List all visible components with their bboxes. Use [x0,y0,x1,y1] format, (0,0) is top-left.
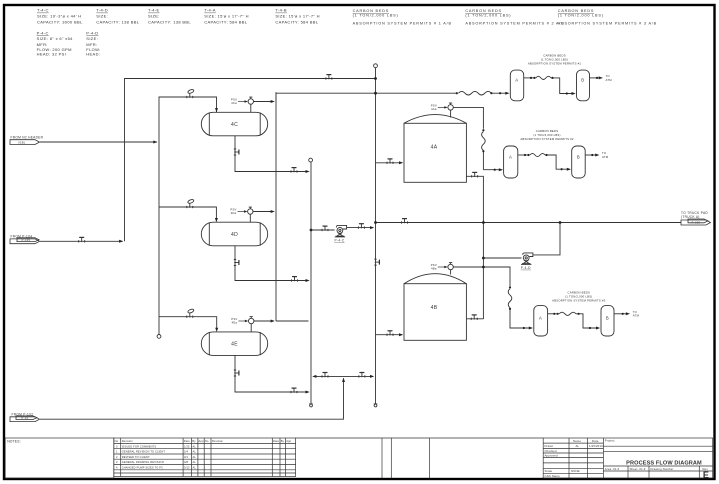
svg-text:CAD Name: CAD Name [545,474,561,478]
coupling pair1 jumper w [530,77,532,79]
coupling pair3 B feed dot [589,327,591,329]
pipe pair2 A inlet [483,169,501,171]
coupling pair3 atm dot [622,313,624,315]
PSV 4A [448,103,453,110]
svg-text:Revision: Revision [122,439,134,443]
svg-text:SIZE: 15'ø x 17'-7" H: SIZE: 15'ø x 17'-7" H [275,13,320,18]
coupling pair1 atm dot [596,77,598,79]
pipe from N2 header flag [40,141,157,143]
svg-text:AL: AL [193,466,197,470]
pipe N2 riser vertical x124 [125,79,376,242]
svg-text:4Ca: 4Ca [231,101,237,105]
svg-text:AL: AL [193,455,197,459]
svg-text:T-4-B: T-4-B [275,8,287,13]
arrow drain 4E into header [306,391,310,394]
svg-text:(1 TON/2,000 LBS): (1 TON/2,000 LBS) [465,14,511,18]
svg-text:4E: 4E [231,341,238,347]
svg-text:HEAD:: HEAD: [86,52,100,57]
svg-text:Scale: Scale [545,469,553,473]
valve 4B outlet [471,315,477,320]
svg-text:0: 0 [116,444,118,448]
coupling pair2 drop lower [482,150,484,152]
coupling pair2 jumper e [545,154,547,156]
svg-text:Name: Name [573,439,581,443]
arrow into 4C top [215,108,218,112]
svg-text:ABSORPTION SYSTEM PERMITS # 2: ABSORPTION SYSTEM PERMITS # 2 A/B [465,21,564,25]
pipe truck pad line [376,222,682,224]
arrow N2 header into manifold [153,141,157,144]
table T-4-A [204,8,249,25]
svg-text:4B: 4B [431,305,438,311]
svg-text:CAPACITY: 138 BBL: CAPACITY: 138 BBL [96,19,139,24]
svg-text:P-4-C: P-4-C [37,30,49,35]
coupling pair1 feed dot [499,92,501,94]
arrow crosstie east end [370,375,374,378]
flag from P-102 [10,416,40,422]
carbon bed pair1 A [510,70,523,101]
svg-text:E: E [703,470,709,480]
svg-text:4D: 4D [231,232,238,238]
svg-text:1: 1 [116,450,118,454]
svg-text:3: 3 [116,460,118,464]
valve trunk isolation [374,259,379,265]
pipe pair3 A-B jumper [548,313,558,315]
coupling pair3 jumper w [553,313,555,315]
svg-text:NOTES:: NOTES: [7,440,21,444]
revision row 3 [116,460,196,464]
svg-text:CAPACITY: 584 BBL: CAPACITY: 584 BBL [204,19,247,24]
junction pump suction at x311 [310,229,313,232]
svg-text:CAPACITY: 138 BBL: CAPACITY: 138 BBL [148,19,191,24]
pipe pair1 A-B jumper [524,77,535,79]
svg-text:P-4-D: P-4-D [521,266,531,270]
svg-text:4A: 4A [431,145,438,151]
svg-text:ATM: ATM [602,155,609,159]
svg-text:Drawn: Drawn [545,444,554,448]
svg-text:PROCESS FLOW DIAGRAM: PROCESS FLOW DIAGRAM [626,461,702,467]
svg-text:1/25: 1/25 [184,444,190,448]
control valve 4C inlet [187,89,195,98]
revision row 0 [116,444,196,448]
arrow P-104 into riser [119,240,123,243]
vent cap drain header top [309,158,313,162]
revision table header [115,439,292,443]
arrow pump discharge into trunk [370,226,374,229]
drain cap trunk bottom [374,404,378,407]
svg-text:4C: 4C [231,122,238,128]
svg-text:3/8: 3/8 [184,460,188,464]
coupling pair2 jumper w2 [527,154,529,156]
pipe pump P-4-D discharge riser [533,223,560,255]
vessel 4C [201,112,267,136]
title block labels [545,439,709,479]
caption carbon beds pair1 [528,54,582,66]
svg-text:App: App [286,439,291,443]
valve pump P-4-C suction [322,226,328,231]
arrow P-102 into crosstie [342,378,345,382]
svg-text:Sheet .01 #: Sheet .01 # [630,467,646,471]
svg-text:Area .01 #: Area .01 # [605,467,620,471]
coupling pair1 jumper e [551,77,553,79]
pipe 4C bottom outlet [235,136,309,172]
tank 4A [404,115,466,183]
junction P-4-D discharge at truck line [559,221,562,224]
carbon bed pair1 B [577,70,590,101]
coupling carbon feed west [456,92,458,94]
svg-text:T-4-E: T-4-E [148,8,160,13]
pipe 4E bottom outlet [235,355,309,392]
arrow into 4D top [215,218,218,222]
svg-text:T-4-A: T-4-A [204,8,216,13]
arrow pair1 B inlet [572,92,576,95]
svg-text:CAPACITY: 584 BBL: CAPACITY: 584 BBL [275,19,318,24]
svg-text:CHANGED PUMP SIZES TO P3: CHANGED PUMP SIZES TO P3 [122,466,163,470]
vent cap inlet manifold bottom [157,335,161,339]
svg-text:ABSORPTION SYSTEM PERMITS #1: ABSORPTION SYSTEM PERMITS #1 [528,62,582,66]
valve 4C drain riser [234,149,239,155]
svg-text:Date: Date [273,439,279,443]
svg-text:2: 2 [116,455,118,459]
vessel 4E [201,332,267,356]
pipe 4A inlet [376,162,403,164]
pipe PSV 4C discharge [254,101,274,103]
pipe pump P-4-C suction [311,229,335,231]
valve pump P-4-C discharge [358,224,364,229]
table T-4-B [275,8,320,25]
svg-text:ABSORPTION SYSTEM PERMITS #3: ABSORPTION SYSTEM PERMITS #3 [552,299,606,303]
svg-text:(1 TON/2,000 LBS): (1 TON/2,000 LBS) [353,14,399,18]
coupling pair3 jumper w2 [557,313,559,315]
flag from N2 header [10,140,40,145]
svg-text:4: 4 [116,466,118,470]
valve on N2 crossover [326,75,332,80]
svg-text:4Da: 4Da [231,211,237,215]
pipe 4B outlet stub [466,318,483,320]
svg-text:P-4-C: P-4-C [334,238,344,242]
svg-text:App: App [199,439,204,443]
flag from P-104 [10,238,40,244]
svg-text:AL: AL [193,450,197,454]
carbon bed pair3 B [601,306,614,336]
pipe pair2 B outlet [585,154,597,156]
coupling pair3 drop lower [509,308,511,310]
pipe drain header x311 [310,162,312,404]
valve 4B inlet [387,331,393,336]
BOTTOM STRIP [5,438,713,478]
svg-text:P-4-D: P-4-D [86,30,98,35]
svg-text:A: A [539,315,542,320]
svg-text:05BL: 05BL [18,140,26,144]
pipe 4B inlet [376,334,403,336]
svg-text:NONE: NONE [571,469,580,473]
PSV 4Ca [248,97,253,104]
pipe PSV 4E discharge [254,320,274,322]
pump P-4-C [335,225,347,237]
svg-text:ATM: ATM [633,314,640,318]
flag to truck pad [681,219,711,225]
pipe manifold bottom to x311 [276,320,309,322]
table T-4-C [37,8,83,25]
svg-text:FROM P-104: FROM P-104 [11,235,33,239]
arrow PSV4C into manifold [271,100,275,103]
coupling pair1 B feed dot [566,92,568,94]
pipe PSV manifold x276 [275,93,277,102]
valve crosstie east [359,373,365,378]
pipe carbon feed header y93 [276,92,456,94]
coupling pair2 atm dot [591,154,593,156]
svg-text:GENERAL DRAWING REVISION: GENERAL DRAWING REVISION [122,460,164,464]
pipe 4D bottom outlet [235,246,309,281]
coupling carbon feed east [490,92,492,94]
svg-text:4Aa: 4Aa [431,107,437,111]
control valve 4E inlet [187,308,195,317]
svg-text:4Ba: 4Ba [431,267,437,271]
junction P-4-D suction [482,257,485,260]
svg-text:Date: Date [592,439,599,443]
svg-text:Checked: Checked [545,449,557,453]
svg-text:ABSORPTION SYSTEM PERMITS # 3: ABSORPTION SYSTEM PERMITS # 3 A/B [558,21,657,25]
pipe 4A outlet [466,176,483,319]
valve on P-104 feed [79,237,85,242]
pipe from P-104 flag [40,240,123,242]
svg-text:3/12: 3/12 [184,466,190,470]
vent cap trunk top [374,64,378,68]
svg-text:(1 TON/2,000 LBS): (1 TON/2,000 LBS) [558,14,604,18]
svg-text:T-4-D: T-4-D [96,8,108,13]
label to atm pair3 [633,310,640,318]
strip divider lines [296,437,382,439]
pipe pump P-4-D suction [483,257,521,259]
carbon bed pair2 B [572,146,586,178]
pump P-4-D [521,253,533,265]
flex hose vertical pair2 feed [482,132,486,151]
arrow PSV4E into manifold [271,320,275,323]
pipe vessel inlet manifold x159 [159,97,217,335]
pipe from P-102 flag [40,378,344,419]
label PSV 4B [431,263,448,271]
pipe pair1 B outlet [590,77,602,79]
valve 4D drain riser [234,259,239,265]
valve 4A inlet [387,159,393,164]
revision row 4 [116,466,196,470]
caption carbon beds pair2 [520,129,574,141]
svg-text:4Ea: 4Ea [232,321,238,325]
arrow pair3 A inlet [529,327,533,330]
arrow into 4E top [215,328,218,332]
pipe PSV 4D discharge [253,211,274,213]
PSV 4Ea [249,317,254,324]
revision table frame [114,438,296,477]
pipe PSV 4B discharge [453,267,510,286]
svg-text:B: B [606,315,609,320]
junction N2 line at trunk [374,77,377,80]
arrow 4A inlet [399,161,403,164]
label PSV 4Ea [231,317,248,325]
svg-text:ABSORPTION SYSTEM PERMITS # 1: ABSORPTION SYSTEM PERMITS # 1 A/B [353,21,452,25]
arrow drain 4D into header [306,279,310,282]
junction PSV4B line at x483 [482,266,485,269]
header carbon beds permit 1 [353,9,452,25]
label to atm pair1 [606,74,613,82]
svg-text:Date: Date [184,439,190,443]
carbon bed pair2 A [504,146,518,178]
revision row 2 [116,455,196,459]
junction 4A outlet at truck line [482,221,485,224]
drain cap x311 bottom [309,404,313,407]
coupling pair2 drop upper [482,129,484,131]
arrow crosstie west end [312,375,316,378]
svg-text:SIZE:: SIZE: [96,13,108,18]
svg-text:ABSORPTION SYSTEM PERMITS #2: ABSORPTION SYSTEM PERMITS #2 [520,137,574,141]
coupling pair2 feed dot [494,169,496,171]
svg-text:SIZE: 19'-3"ø x 44' H: SIZE: 19'-3"ø x 44' H [37,13,82,18]
svg-text:P-025: P-025 [692,220,701,224]
pipe 4D inlet [159,207,216,220]
svg-text:B: B [581,78,584,83]
tank 4B [404,274,466,341]
arrow pair3 to atm [626,312,630,315]
svg-text:1/25/2019: 1/25/2019 [589,444,603,448]
MAINLINES [40,68,681,420]
valve 4D drain header [291,277,297,282]
arrow pair2 B inlet [567,168,571,171]
svg-text:(TRUCK A): (TRUCK A) [681,215,700,219]
svg-text:By: By [281,439,285,443]
pipe x311 to trunk crosstie [314,375,374,377]
label to atm pair2 [602,151,609,159]
notes box [5,438,114,478]
pipe pair2 A-B jumper [518,154,529,156]
pipe pump P-4-C discharge [347,227,373,229]
svg-text:B: B [577,155,580,160]
pipe trunk x375 [375,68,377,404]
svg-text:No: No [205,439,209,443]
table T-4-D [96,8,139,25]
label PSV 4Da [230,208,247,216]
arrow PSV4D into manifold [271,210,275,213]
svg-text:AL: AL [193,444,197,448]
coupling pair3 feed dot [523,327,525,329]
vessel 4D [201,222,267,246]
svg-text:A: A [509,155,512,160]
svg-text:AL: AL [193,460,197,464]
revision row 1 [116,450,196,454]
svg-text:Approved: Approved [545,454,558,458]
svg-text:No: No [115,439,119,443]
PSV 4Da [248,207,253,214]
svg-text:A: A [515,78,518,83]
valve crosstie west [322,373,328,378]
caption carbon beds pair3 [552,291,606,303]
svg-text:SIZE:: SIZE: [148,13,160,18]
arrow pair1 A inlet [505,92,509,95]
arrow pair2 A inlet [499,168,503,171]
header carbon beds permit 3 [558,9,657,25]
svg-text:SIZE:: SIZE: [86,36,98,41]
carbon bed pair3 A [534,306,548,336]
valve 4E drain header [291,388,297,393]
svg-text:GENERAL REVISION TO CLIENT: GENERAL REVISION TO CLIENT [122,450,166,454]
pipe pair3 B outlet [614,313,628,315]
arrow pair2 to atm [595,154,599,157]
junction truck line at trunk [374,221,377,224]
svg-text:By: By [192,439,196,443]
flex hose carbon feed [458,91,491,95]
table T-4-E [148,8,191,25]
svg-text:P-01: P-01 [22,416,29,420]
flex hose vertical pair3 feed [508,289,512,308]
label PSV 4Ca [231,98,248,106]
svg-text:AL: AL [576,444,580,448]
svg-text:Project: Project [605,439,615,443]
table P-4-D [86,30,100,56]
svg-text:P-105: P-105 [22,238,31,242]
valve truck line [401,219,407,224]
coupling pair3 drop upper [509,286,511,288]
table P-4-C [37,30,74,56]
svg-text:CAPACITY: 3000 BBL: CAPACITY: 3000 BBL [37,19,83,24]
label PSV 4A [431,103,448,111]
svg-text:FROM P-102: FROM P-102 [12,412,34,416]
arrow pair3 B inlet [596,327,600,330]
svg-text:ISSUED FOR COMMENTS: ISSUED FOR COMMENTS [122,444,157,448]
control valve 4D inlet [187,199,195,208]
valve 4E drain riser [234,370,239,376]
coupling pair3 jumper e [578,313,580,315]
svg-text:ATM: ATM [606,78,613,82]
BOTTOM STRIP TEXTS [7,439,709,481]
coupling pair1 jumper w2 [533,77,535,79]
svg-text:Revision: Revision [212,439,224,443]
svg-text:2/4: 2/4 [184,450,188,454]
svg-text:SIZE: 15'ø x 17'-7" H: SIZE: 15'ø x 17'-7" H [204,13,249,18]
svg-text:Drawing Number: Drawing Number [651,467,674,471]
PSV 4B [448,263,453,270]
junction carbon header at trunk [374,92,377,95]
valve 4C drain header [291,168,297,173]
coupling pair2 B feed dot [561,168,563,170]
title block frame [543,438,713,478]
coupling pair2 jumper w [524,154,526,156]
arrow 4B inlet [399,333,403,336]
svg-text:REVISED TO CLIENT: REVISED TO CLIENT [122,455,150,459]
svg-text:3/1: 3/1 [184,455,188,459]
arrow drain 4C into header [306,170,310,173]
svg-text:FROM N2 HEADER: FROM N2 HEADER [11,135,44,139]
arrow pair1 to atm [599,76,603,79]
pipe PSV 4A discharge to flex drop x483 [453,107,483,128]
svg-text:HEAD: 32 PSI: HEAD: 32 PSI [37,52,67,57]
pipe 4E inlet [159,317,217,330]
valve 4A outlet [472,172,478,177]
svg-text:T-4-C: T-4-C [37,8,49,13]
svg-text:SIZE: 8" x 6" x54: SIZE: 8" x 6" x54 [37,36,74,41]
header carbon beds permit 2 [465,9,564,25]
